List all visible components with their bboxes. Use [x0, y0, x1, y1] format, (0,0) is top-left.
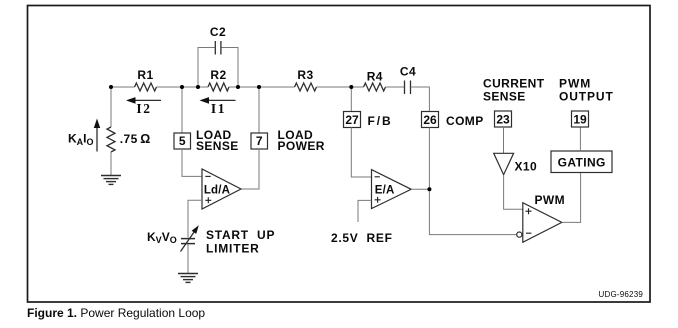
op-amp Ld/A — [202, 169, 241, 209]
current arrow KAIo — [68, 119, 100, 152]
wire bus between R2 and R3 — [229, 86, 295, 88]
wire bus to pin 27 — [350, 87, 352, 112]
svg-text:7: 7 — [256, 134, 263, 148]
node dot pin 5 — [180, 85, 184, 89]
caption Figure 1 — [27, 304, 205, 322]
svg-text:E/A: E/A — [375, 184, 395, 196]
current arrow I1 — [200, 97, 236, 116]
svg-text:UDG-96239: UDG-96239 — [599, 290, 644, 299]
pin box 26 — [422, 112, 439, 128]
wire pin 23 to X10 — [503, 127, 505, 153]
svg-text:R4: R4 — [367, 69, 383, 83]
label CURRENT SENSE — [483, 77, 545, 104]
node dot bus left — [109, 85, 113, 89]
wire main bus left segment — [111, 86, 135, 88]
comparator PWM — [517, 193, 565, 242]
ground — [101, 176, 121, 185]
wire left branch vertical — [110, 87, 112, 127]
wire PWM output to GATING — [562, 173, 581, 223]
svg-text:23: 23 — [496, 112, 510, 126]
label LOAD POWER — [278, 128, 325, 153]
wire resistor to ground — [110, 152, 112, 176]
svg-text:.75Ω: .75Ω — [120, 132, 151, 146]
capacitor C2 branch right wire — [222, 48, 239, 88]
svg-text:PWM: PWM — [535, 193, 566, 207]
svg-text:Ld/A: Ld/A — [204, 184, 230, 196]
op-amp E/A — [372, 170, 412, 209]
capacitor C2 branch left wire — [198, 48, 215, 88]
svg-text:R3: R3 — [297, 68, 313, 82]
label PWM OUTPUT — [559, 77, 614, 104]
node dot C2 right — [236, 85, 240, 89]
svg-text:26: 26 — [423, 113, 437, 127]
svg-text:POWER: POWER — [278, 139, 325, 153]
svg-text:27: 27 — [345, 113, 359, 127]
pin box 27 — [344, 112, 361, 128]
resistor .75 ohm — [107, 127, 151, 152]
wire pin 5 to Ld/A inverting input — [182, 149, 202, 176]
resistor R3 — [295, 68, 317, 91]
svg-text:19: 19 — [573, 112, 587, 126]
pin box 7 — [251, 133, 268, 149]
svg-text:5: 5 — [179, 134, 186, 148]
pin box 23 — [495, 111, 512, 127]
wire between R4 and C4 — [386, 86, 405, 88]
current arrow I2 — [126, 97, 161, 116]
node dot pin 7 — [257, 85, 261, 89]
wire bus to pin 7 — [258, 87, 260, 133]
wire X10 to PWM non-inverting input — [504, 175, 523, 210]
wire bus to pin 5 — [181, 87, 183, 133]
svg-text:C2: C2 — [210, 25, 226, 39]
pin box 5 — [174, 133, 191, 149]
wire E/A output to comp node — [411, 188, 429, 190]
label START UP LIMITER — [206, 228, 275, 255]
node dot pin 27 — [349, 85, 353, 89]
svg-text:R1: R1 — [137, 68, 153, 82]
svg-text:GATING: GATING — [558, 156, 606, 170]
wire E/A non-inverting input to 2.5V ref — [358, 200, 372, 222]
wire bus between R1 and R2 — [157, 86, 209, 88]
resistor R1 — [135, 68, 157, 91]
svg-text:F/B: F/B — [368, 114, 393, 128]
box GATING — [551, 151, 612, 173]
wire Ld/A output to pin 7 — [241, 149, 259, 189]
svg-text:SENSE: SENSE — [483, 89, 526, 103]
resistor R2 — [208, 68, 229, 91]
svg-text:START UP: START UP — [206, 228, 275, 242]
wire source to ground — [187, 245, 189, 274]
svg-text:X10: X10 — [515, 160, 538, 174]
wire bus between R3 and R4 — [317, 86, 364, 88]
svg-text:SENSE: SENSE — [196, 139, 239, 153]
svg-text:R2: R2 — [210, 68, 226, 82]
label LOAD SENSE — [196, 128, 239, 153]
svg-text:LIMITER: LIMITER — [206, 241, 260, 255]
svg-text:C4: C4 — [400, 64, 416, 78]
wire pin 27 to E/A inverting input — [351, 128, 371, 178]
capacitor C2 — [210, 25, 226, 54]
wire pin 26 down to PWM inverting input — [429, 128, 516, 235]
pin box 19 — [572, 111, 589, 127]
capacitor C4 — [400, 64, 416, 94]
variable source KvVo — [147, 225, 199, 251]
node junction dot E/A output — [427, 187, 431, 191]
wire Ld/A non-inverting input to limiter — [188, 200, 202, 237]
svg-text:I2: I2 — [136, 101, 151, 116]
node dot C2 left — [196, 85, 200, 89]
svg-text:I1: I1 — [211, 101, 226, 116]
svg-text:COMP: COMP — [446, 114, 484, 128]
amplifier X10 — [494, 153, 537, 174]
wire from C4 down to pin 26 — [411, 87, 429, 112]
wire GATING to pin 19 — [579, 127, 581, 151]
ground 2 — [178, 274, 198, 283]
resistor R4 — [364, 69, 386, 91]
svg-text:2.5V REF: 2.5V REF — [331, 231, 393, 245]
svg-text:OUTPUT: OUTPUT — [559, 89, 614, 103]
